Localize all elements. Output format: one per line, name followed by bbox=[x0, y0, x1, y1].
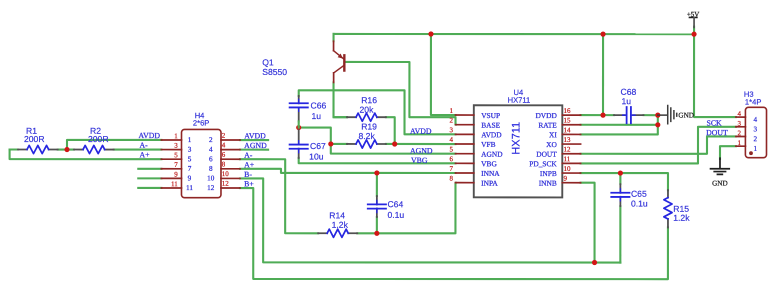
junction R1/R2/AVDD bbox=[64, 147, 69, 152]
junction C64 bottom INPA/R14 bbox=[374, 231, 379, 236]
svg-text:3: 3 bbox=[174, 142, 178, 150]
svg-text:2: 2 bbox=[209, 136, 213, 144]
wire H4 pin7 stub bbox=[138, 168, 161, 170]
wire C64 bottom lead connection bbox=[376, 217, 378, 233]
H4 pin 3 stub bbox=[161, 149, 181, 151]
wire DOUT U4 pin12 to H3 pin2 bbox=[581, 136, 736, 153]
H3 pin 1 stub bbox=[736, 145, 746, 147]
svg-text:8: 8 bbox=[222, 160, 226, 168]
U4 pin 14 stub bbox=[562, 133, 580, 135]
svg-text:VSUP: VSUP bbox=[481, 111, 500, 120]
ground GND right of C68 bbox=[658, 114, 667, 116]
svg-text:AVDD: AVDD bbox=[481, 130, 502, 139]
svg-text:C67: C67 bbox=[310, 141, 326, 151]
svg-text:R19: R19 bbox=[361, 121, 377, 131]
svg-text:8.2k: 8.2k bbox=[359, 131, 376, 141]
svg-text:Q1: Q1 bbox=[262, 57, 274, 67]
junction C68 right GND bbox=[655, 113, 660, 118]
U4 pin 3 stub bbox=[456, 133, 474, 135]
svg-text:16: 16 bbox=[564, 107, 572, 115]
H4 pin 8 stub bbox=[221, 168, 240, 170]
svg-text:+5V: +5V bbox=[687, 11, 700, 19]
svg-text:VFB: VFB bbox=[481, 140, 495, 149]
svg-text:AVDD: AVDD bbox=[139, 131, 161, 140]
wire RATE U4 pin15 tie bbox=[581, 124, 658, 126]
svg-text:2: 2 bbox=[754, 135, 758, 143]
svg-text:A-: A- bbox=[139, 141, 148, 150]
wire VBG C67 bottom to U4 pin6 bbox=[299, 158, 456, 163]
svg-text:1.2k: 1.2k bbox=[673, 213, 690, 223]
wire H4 AGND right label wire bbox=[240, 149, 268, 151]
svg-text:1: 1 bbox=[737, 139, 741, 147]
svg-text:XO: XO bbox=[546, 140, 557, 149]
U4 pin 7 stub bbox=[455, 172, 473, 174]
U4 pin 15 stub bbox=[562, 124, 580, 126]
svg-text:7: 7 bbox=[174, 161, 178, 169]
svg-text:3: 3 bbox=[188, 146, 192, 154]
U4 pin 10 stub bbox=[562, 172, 580, 174]
wire C66 bottom to AGND junction bbox=[298, 121, 300, 127]
transistor Q1 collector diagonal bbox=[334, 65, 345, 73]
svg-text:6: 6 bbox=[222, 151, 226, 159]
wire INNB U4 pin9 down to B- line bbox=[581, 183, 595, 263]
ground GND below H3 bbox=[719, 158, 721, 168]
svg-text:1: 1 bbox=[174, 132, 178, 140]
wire DVDD drop from rail to U4 pin16 bbox=[602, 34, 604, 115]
svg-text:INPA: INPA bbox=[481, 179, 498, 188]
wire AGND row to U4 pin5 bbox=[331, 144, 456, 154]
svg-text:7: 7 bbox=[449, 165, 453, 173]
connector H4 body bbox=[181, 129, 221, 197]
U4 pin 5 stub bbox=[455, 153, 473, 155]
wire H4 pin11 stub bbox=[138, 187, 161, 189]
junction C65 top INPB bbox=[618, 170, 623, 175]
svg-text:A-: A- bbox=[244, 151, 253, 160]
H3 pin 4 stub bbox=[736, 116, 746, 118]
wire C68 right to GND node bbox=[644, 114, 658, 116]
wire DVDD U4 pin16 to C68 bbox=[581, 114, 614, 116]
svg-text:6: 6 bbox=[449, 155, 453, 163]
svg-text:0.1u: 0.1u bbox=[631, 199, 648, 209]
svg-text:5: 5 bbox=[449, 145, 453, 153]
wire +5V stem to H3 pin4 bbox=[694, 27, 736, 117]
svg-text:2: 2 bbox=[738, 129, 742, 137]
wire C64 top connection to INNA row bbox=[376, 173, 378, 196]
svg-text:10: 10 bbox=[563, 165, 571, 173]
wire H4 pin9 stub bbox=[138, 177, 161, 179]
junction C66/C67 AGND node bbox=[296, 125, 301, 130]
svg-text:RATE: RATE bbox=[538, 121, 557, 130]
H4 pin 2 stub bbox=[221, 139, 240, 141]
svg-text:11: 11 bbox=[563, 155, 570, 163]
wire R2 to H4 pin3 A- bbox=[114, 149, 162, 151]
U4 pin 9 stub bbox=[562, 182, 580, 184]
svg-text:13: 13 bbox=[564, 136, 572, 144]
wire XI U4 pin14 tie bbox=[581, 115, 658, 134]
resistor R14 body bbox=[318, 232, 327, 234]
svg-text:7: 7 bbox=[188, 165, 192, 173]
svg-text:4: 4 bbox=[738, 110, 742, 118]
svg-text:INPB: INPB bbox=[540, 169, 557, 178]
wire A- from H4 pin6 down to R14 bbox=[240, 159, 318, 233]
svg-text:INNB: INNB bbox=[539, 179, 557, 188]
transistor Q1 emitter diagonal bbox=[334, 51, 344, 59]
capacitor C64 body bbox=[376, 196, 378, 205]
svg-text:DOUT: DOUT bbox=[706, 128, 728, 137]
H4 pin 5 stub bbox=[161, 158, 181, 160]
svg-text:GND: GND bbox=[678, 111, 694, 119]
wire B- from H4 pin10 down bbox=[240, 178, 620, 262]
resistor R1 body bbox=[18, 149, 27, 151]
svg-text:9: 9 bbox=[563, 175, 567, 183]
wire AVDD net C66 top to U4 pin3 bbox=[299, 90, 456, 134]
svg-text:AGND: AGND bbox=[244, 141, 267, 150]
U4 pin 12 stub bbox=[562, 153, 580, 155]
svg-text:4: 4 bbox=[450, 136, 454, 144]
transistor Q1 emitter arrow bbox=[338, 53, 343, 58]
svg-text:0.1u: 0.1u bbox=[387, 210, 404, 220]
wire VSUP drop from rail to U4 pin1 bbox=[431, 34, 456, 115]
U4 pin 11 stub bbox=[562, 162, 580, 164]
wire A+ left with corner bbox=[10, 150, 162, 160]
H4 pin 7 stub bbox=[161, 168, 181, 170]
svg-text:C66: C66 bbox=[311, 100, 327, 110]
resistor R19 body bbox=[347, 143, 356, 145]
capacitor C65 body bbox=[619, 184, 621, 193]
svg-text:9: 9 bbox=[174, 170, 178, 178]
transistor Q1 base bar bbox=[343, 54, 345, 72]
svg-text:2: 2 bbox=[222, 132, 226, 140]
connector H3 body bbox=[745, 107, 766, 157]
svg-text:VBG: VBG bbox=[411, 156, 428, 165]
svg-text:1u: 1u bbox=[312, 111, 322, 121]
H3 pin1 marker dot bbox=[749, 151, 753, 155]
svg-text:INNA: INNA bbox=[481, 169, 500, 178]
wire INPB U4 pin10 row to R15 top bbox=[581, 173, 668, 190]
wire R1 left connection bbox=[10, 148, 18, 150]
H3 pin 3 stub bbox=[736, 126, 746, 128]
H3 pin 2 stub bbox=[736, 135, 746, 137]
junction DVDD pin16 bbox=[600, 113, 605, 118]
wire Q1 emitter to rail bbox=[333, 34, 335, 41]
svg-text:XI: XI bbox=[549, 130, 557, 139]
svg-text:10: 10 bbox=[222, 170, 230, 178]
svg-text:DOUT: DOUT bbox=[536, 150, 557, 159]
svg-text:9: 9 bbox=[188, 174, 192, 182]
power +5V symbol bbox=[689, 16, 698, 18]
wire H3 pin1 to GND bbox=[720, 146, 736, 159]
svg-text:C65: C65 bbox=[631, 189, 647, 199]
H4 pin 10 stub bbox=[221, 177, 240, 179]
H4 pin 11 stub bbox=[161, 187, 181, 189]
svg-text:11: 11 bbox=[186, 184, 193, 192]
wire VFB node to U4 pin4 bbox=[386, 143, 456, 145]
wire R14 right to C64 bottom node bbox=[357, 232, 377, 234]
U4 pin 6 stub bbox=[455, 162, 473, 164]
junction rail DVDD bbox=[600, 32, 605, 37]
wire R16 right to VFB node bbox=[386, 117, 395, 144]
svg-text:2*6P: 2*6P bbox=[193, 118, 209, 127]
svg-text:AGND: AGND bbox=[481, 150, 503, 159]
svg-text:5: 5 bbox=[188, 155, 192, 163]
junction RATE tie bbox=[655, 122, 660, 127]
transistor Q1 emitter stub bbox=[333, 41, 335, 51]
svg-text:3: 3 bbox=[738, 120, 742, 128]
U4 pin 4 stub bbox=[456, 143, 474, 145]
resistor R2 body bbox=[74, 149, 83, 151]
wire Q1 collector down to R16 bbox=[334, 82, 348, 117]
svg-text:4: 4 bbox=[754, 116, 758, 124]
H4 pin 6 stub bbox=[221, 158, 240, 160]
U4 pin 13 stub bbox=[562, 143, 580, 145]
svg-text:5: 5 bbox=[174, 151, 178, 159]
wire C64 bottom node to U4 pin8 INPA bbox=[377, 183, 456, 234]
svg-text:2: 2 bbox=[450, 116, 454, 124]
resistor R16 body bbox=[347, 116, 356, 118]
svg-text:1: 1 bbox=[450, 107, 454, 115]
svg-text:8: 8 bbox=[449, 174, 453, 182]
U4 pin 8 stub bbox=[455, 182, 473, 184]
svg-text:8: 8 bbox=[209, 165, 213, 173]
svg-text:12: 12 bbox=[563, 146, 571, 154]
svg-text:4: 4 bbox=[222, 141, 226, 149]
wire PD_SCK U4 pin11 to H3 pin3 SCK bbox=[581, 127, 736, 164]
transistor Q1 collector stub bbox=[333, 73, 335, 83]
wire R19 left lead bbox=[331, 143, 347, 145]
svg-text:B+: B+ bbox=[244, 179, 254, 188]
capacitor C66 body bbox=[298, 96, 300, 103]
svg-text:AVDD: AVDD bbox=[410, 127, 432, 136]
svg-text:VBG: VBG bbox=[481, 159, 497, 168]
svg-text:15: 15 bbox=[564, 117, 572, 125]
svg-text:3: 3 bbox=[754, 125, 758, 133]
svg-text:SCK: SCK bbox=[707, 118, 723, 127]
junction rail +5V stem bbox=[691, 32, 696, 37]
svg-text:PD_SCK: PD_SCK bbox=[529, 159, 557, 168]
svg-text:200R: 200R bbox=[88, 134, 109, 144]
U4 pin 16 stub bbox=[562, 114, 580, 116]
wire B+ from H4 pin12 down bbox=[240, 188, 668, 279]
svg-text:10u: 10u bbox=[309, 152, 324, 162]
svg-text:A+: A+ bbox=[139, 150, 150, 159]
svg-text:1: 1 bbox=[188, 136, 192, 144]
H4 pin 9 stub bbox=[161, 177, 181, 179]
resistor R15 body bbox=[667, 190, 669, 198]
wire AGND node C66/C67 junction to R19 left bbox=[299, 128, 331, 144]
svg-text:11: 11 bbox=[171, 180, 178, 188]
wire AVDD junction up to H4 pin1 bbox=[67, 140, 161, 150]
svg-text:3: 3 bbox=[450, 126, 454, 134]
H4 pin 1 stub bbox=[161, 139, 181, 141]
junction R16/R19 right VFB bbox=[392, 141, 397, 146]
junction rail VSUP bbox=[428, 31, 433, 36]
svg-text:BASE: BASE bbox=[481, 121, 500, 130]
wire A+ from H4 pin8 to U4 pin7 INNA bbox=[240, 169, 456, 173]
svg-text:10: 10 bbox=[207, 174, 215, 182]
junction INNB B- line bbox=[592, 260, 597, 265]
svg-text:1u: 1u bbox=[622, 96, 632, 106]
svg-text:14: 14 bbox=[564, 126, 572, 134]
capacitor C67 body bbox=[298, 130, 300, 145]
svg-text:HX711: HX711 bbox=[508, 96, 531, 105]
H4 pin 12 stub bbox=[221, 187, 240, 189]
junction C64 top INNA bbox=[374, 170, 379, 175]
wire R16 left vertical bbox=[334, 116, 348, 118]
svg-text:4: 4 bbox=[209, 146, 213, 154]
wire Q1 base to node bbox=[346, 62, 456, 125]
wire H4 AVDD right label wire bbox=[240, 139, 268, 141]
wire +5V top rail bbox=[334, 33, 694, 35]
wire R1 to R2 junction bbox=[58, 148, 74, 150]
svg-text:AVDD: AVDD bbox=[244, 131, 266, 140]
svg-text:A+: A+ bbox=[244, 160, 255, 169]
wire C65 bottom lead to B- line bbox=[619, 206, 621, 262]
svg-text:HX711: HX711 bbox=[510, 122, 522, 155]
junction R19 left AGND bbox=[328, 141, 333, 146]
svg-text:C64: C64 bbox=[387, 199, 403, 209]
op-amp U4 body bbox=[474, 105, 563, 197]
svg-text:200R: 200R bbox=[24, 134, 45, 144]
wire C65 top lead connection bbox=[619, 173, 621, 184]
svg-text:DVDD: DVDD bbox=[535, 111, 557, 120]
svg-text:12: 12 bbox=[222, 180, 230, 188]
svg-text:GND: GND bbox=[712, 179, 728, 187]
capacitor C68 body bbox=[614, 114, 625, 116]
svg-text:1*4P: 1*4P bbox=[745, 97, 761, 106]
U4 pin 2 stub bbox=[456, 124, 474, 126]
svg-text:1.2k: 1.2k bbox=[332, 220, 349, 230]
svg-text:6: 6 bbox=[209, 155, 213, 163]
svg-text:B-: B- bbox=[244, 170, 252, 179]
U4 pin 1 stub bbox=[456, 114, 474, 116]
svg-text:1: 1 bbox=[753, 145, 757, 153]
svg-text:12: 12 bbox=[207, 184, 215, 192]
svg-text:S8550: S8550 bbox=[262, 67, 287, 77]
svg-text:AGND: AGND bbox=[410, 146, 433, 155]
svg-text:20k: 20k bbox=[360, 105, 375, 115]
H4 pin 4 stub bbox=[221, 149, 240, 151]
